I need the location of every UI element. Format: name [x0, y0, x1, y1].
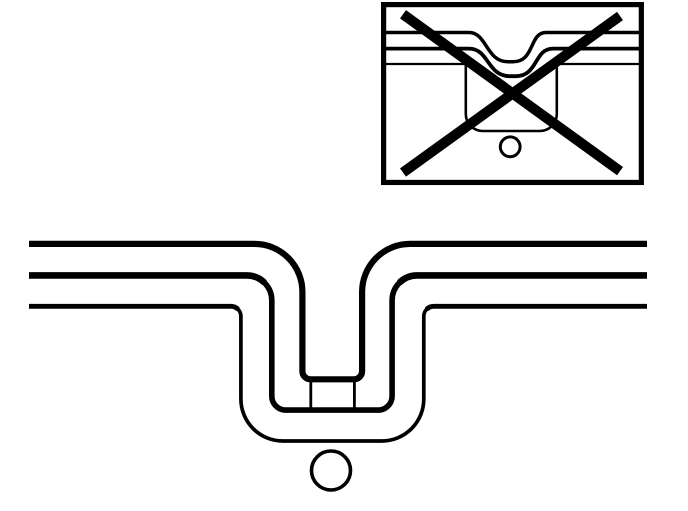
cable circle below groove	[312, 451, 351, 490]
inset: substrate surface left of groove	[386, 63, 466, 65]
main figure: bottom layer full line (base stroke)	[29, 306, 647, 441]
inset: groove outline	[466, 64, 557, 131]
main figure: middle layer full line (base stroke)	[29, 275, 647, 410]
main figure: middle layer left horizontal run (thicker overlay)	[29, 275, 265, 282]
inset: top layer line sagging into groove	[386, 33, 639, 62]
inset: prohibition cross stroke (top-left to bottom-right)	[403, 14, 620, 171]
inset box border (wrong-way panel)	[384, 5, 642, 183]
main figure: bottom layer right horizontal run (thicker overlay)	[427, 306, 647, 309]
inset: substrate surface right of groove	[557, 63, 639, 65]
clip block under inner slot (right side)	[353, 379, 356, 410]
main figure: middle layer right horizontal run (thicker overlay)	[399, 275, 647, 282]
inset: cable circle	[500, 137, 520, 157]
inset: prohibition cross stroke (bottom-left to top-right)	[403, 16, 620, 173]
main figure: top layer line dipping into groove (inner slot)	[29, 244, 647, 379]
main figure: bottom layer left horizontal run (thicker overlay)	[29, 306, 238, 309]
inset: second layer line sagging deeper	[386, 49, 639, 77]
clip block under inner slot (left side)	[309, 379, 312, 410]
